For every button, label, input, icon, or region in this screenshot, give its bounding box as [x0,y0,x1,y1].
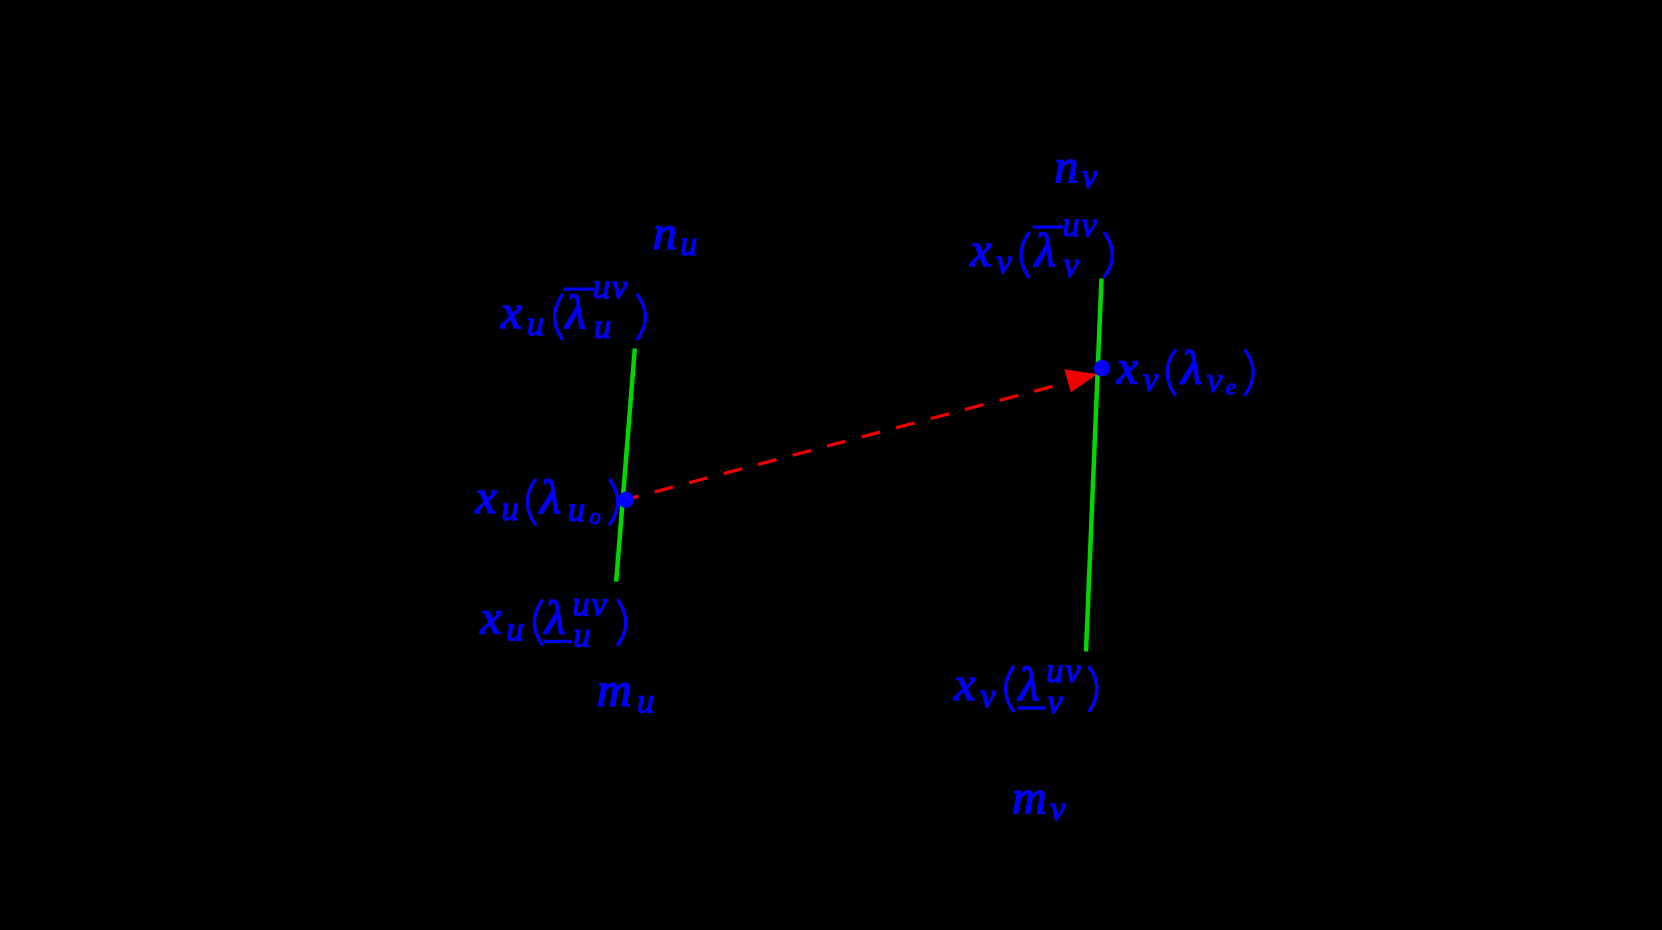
svg-text:v: v [980,676,996,715]
red dashed connector [628,385,1060,500]
svg-text:λ: λ [543,592,566,645]
label m_v (lower v) [1012,772,1066,829]
label x_u(bar-lambda_u^uv) (left) [500,267,646,346]
segment v (green) [1086,279,1102,652]
svg-text:o: o [589,504,601,529]
svg-text:n: n [653,207,677,260]
svg-text:v: v [1143,360,1159,399]
label x_v(bar-lambda_v^uv) (right) [969,205,1112,284]
svg-text:u: u [680,224,698,263]
label x_v(underline-lambda_v^uv) (right lower) [953,651,1097,721]
svg-text:v: v [996,242,1012,281]
label x_v(lambda_ve) (end point) [1116,342,1253,400]
node dot x_u(lambda_uo) [618,492,634,508]
svg-text:u: u [527,304,545,343]
svg-text:λ: λ [1033,224,1056,277]
label n_u (upper u) [653,207,698,263]
label m_u (lower u) [597,664,655,721]
label x_u(lambda_uo) (origin point) [474,471,617,529]
svg-text:x: x [953,658,975,711]
svg-text:v: v [1207,361,1223,400]
svg-text:v: v [1050,789,1066,828]
svg-text:u: u [594,307,612,346]
svg-text:λ: λ [538,471,561,524]
label n_v (upper v) [1054,140,1098,195]
svg-text:λ: λ [563,286,586,339]
svg-text:u: u [568,490,586,529]
svg-text:x: x [1116,342,1138,395]
svg-text:u: u [501,489,519,528]
svg-text:λ: λ [1179,342,1202,395]
svg-text:u: u [573,616,591,655]
svg-text:u: u [506,610,524,649]
svg-text:x: x [500,286,522,339]
svg-text:v: v [1063,245,1079,284]
label x_u(underline-lambda_u^uv) (left lower) [479,585,625,655]
svg-text:m: m [597,664,632,717]
svg-text:m: m [1012,772,1047,825]
svg-text:x: x [474,471,496,524]
segment u (green) [616,349,635,582]
node dot x_v(lambda_ve) [1094,360,1110,376]
svg-text:v: v [1047,682,1063,721]
svg-text:λ: λ [1017,658,1040,711]
svg-text:v: v [1082,156,1098,195]
svg-text:x: x [969,224,991,277]
svg-text:x: x [479,592,501,645]
svg-text:e: e [1226,375,1236,400]
svg-text:u: u [637,682,655,721]
svg-text:uv: uv [593,267,629,306]
svg-text:uv: uv [1062,205,1098,244]
svg-text:n: n [1054,140,1078,193]
red arrowhead [1064,369,1097,392]
